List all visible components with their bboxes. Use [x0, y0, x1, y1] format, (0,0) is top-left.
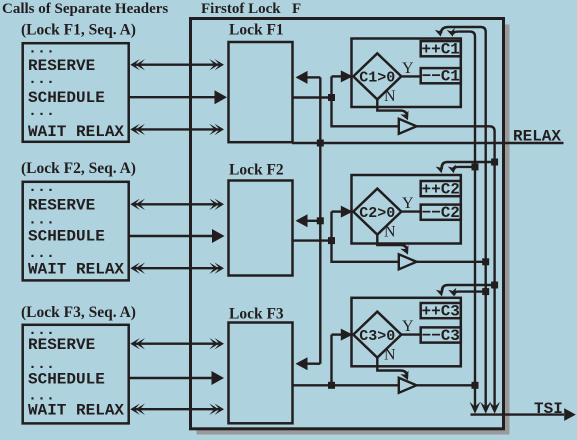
svg-text:C1>0: C1>0	[359, 70, 395, 87]
svg-text:...: ...	[28, 245, 55, 262]
svg-text:(Lock F3, Seq. A): (Lock F3, Seq. A)	[21, 304, 136, 321]
svg-text:SCHEDULE: SCHEDULE	[28, 370, 105, 388]
svg-text:++C1: ++C1	[421, 41, 459, 59]
svg-text:(Lock F2, Seq. A): (Lock F2, Seq. A)	[21, 160, 136, 177]
svg-text:C2>0: C2>0	[359, 205, 395, 222]
svg-text:RELAX: RELAX	[513, 128, 561, 146]
svg-text:Y: Y	[402, 60, 414, 77]
svg-text:RESERVE: RESERVE	[28, 336, 95, 354]
svg-text:...: ...	[28, 71, 55, 88]
svg-text:...: ...	[28, 179, 55, 196]
svg-text:C3>0: C3>0	[359, 328, 395, 345]
svg-text:TSI: TSI	[534, 400, 563, 418]
svg-text:N: N	[384, 88, 396, 105]
svg-text:Lock F1: Lock F1	[229, 22, 284, 39]
svg-text:N: N	[384, 223, 396, 240]
svg-text:F: F	[292, 1, 301, 17]
svg-text:...: ...	[28, 212, 55, 229]
svg-text:Firstof Lock: Firstof Lock	[201, 1, 281, 17]
svg-text:WAIT RELAX: WAIT RELAX	[28, 261, 124, 279]
svg-text:Lock F3: Lock F3	[229, 306, 284, 323]
svg-text:++C2: ++C2	[421, 181, 459, 199]
svg-text:Lock F2: Lock F2	[229, 162, 284, 179]
svg-text:−−C3: −−C3	[421, 327, 459, 345]
svg-text:−−C2: −−C2	[421, 204, 459, 222]
svg-text:WAIT RELAX: WAIT RELAX	[28, 123, 124, 141]
svg-text:Y: Y	[402, 195, 414, 212]
svg-text:Y: Y	[402, 318, 414, 335]
svg-text:N: N	[384, 346, 396, 363]
svg-text:...: ...	[28, 41, 55, 58]
svg-text:Calls of Separate Headers: Calls of Separate Headers	[2, 1, 168, 17]
svg-text:(Lock F1, Seq. A): (Lock F1, Seq. A)	[21, 21, 136, 38]
svg-text:WAIT RELAX: WAIT RELAX	[28, 402, 124, 420]
svg-text:−−C1: −−C1	[421, 68, 459, 86]
svg-text:...: ...	[28, 103, 55, 120]
svg-text:SCHEDULE: SCHEDULE	[28, 228, 105, 246]
svg-text:++C3: ++C3	[421, 303, 459, 321]
